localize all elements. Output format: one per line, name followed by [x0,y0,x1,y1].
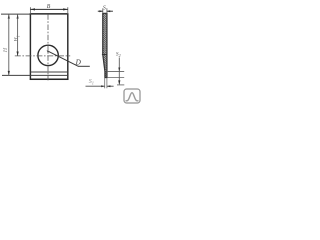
svg-text:S2: S2 [116,51,121,58]
hole circle [38,45,58,65]
vertical centerline [47,14,49,80]
S1 extension line left [104,78,106,89]
dimension B extension right [67,7,69,14]
S1 dim line right [107,85,114,87]
svg-text:S1: S1 [89,79,94,85]
right dim arrow mid (down) [118,68,120,72]
H arrow bottom [8,71,10,76]
watermark logo rounded square [124,89,140,103]
S arrow right (points left) [107,10,110,12]
H1 arrow bottom [17,52,19,57]
wedge taper break line [102,54,108,56]
wedge tip bottom edge [105,77,108,79]
B arrow right [63,8,68,10]
plate inner line lower / H extension [2,74,68,76]
H arrow top [8,14,10,19]
svg-text:H: H [3,47,9,53]
S1 arrow right (points left) [107,85,111,87]
H1 arrow top [17,14,19,19]
right short line bottom [117,84,124,86]
svg-text:S: S [103,6,106,12]
right extension line lower [107,77,124,79]
dimension S right shaft [107,10,113,12]
dimension S left shaft [98,10,103,12]
S arrow left (points right) [99,10,102,12]
wedge hatching [98,1,112,93]
leader arrowhead [47,50,50,53]
watermark bell curve [126,93,139,101]
label H1 (rotated) [14,35,20,42]
svg-text:H1: H1 [14,35,20,42]
plate bottom edge (thick) [30,78,68,80]
horizontal centerline [15,55,70,57]
leader to D [47,51,78,67]
wedge tip left edge [104,72,106,78]
svg-text:B: B [47,4,51,10]
right dim arrow bottom (down) [118,80,120,84]
S1 dim line left [86,85,105,87]
dimension B line [30,8,67,10]
leader shelf [78,65,90,67]
S extension line left [102,8,104,13]
S1 extension line right [106,78,108,89]
plate top edge (overlay) [30,13,68,15]
B arrow left [30,8,35,10]
svg-text:D: D [75,58,82,66]
dimension B extension left [29,7,31,14]
dimension H line [8,14,10,75]
right extension line upper [107,71,124,73]
dimension H1 line [17,14,19,56]
S extension line right [106,8,108,13]
wedge outline (side view) [103,13,107,77]
background [0,0,141,104]
plate inner line upper [30,71,67,73]
S1 arrow left (points right) [101,85,105,87]
right dimension shaft [118,58,120,85]
top extension line [1,13,30,15]
plate outline (front view) [30,14,67,79]
